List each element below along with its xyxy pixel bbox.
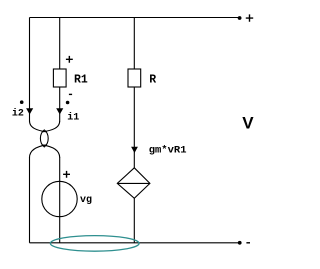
svg-text:R: R [149,73,156,86]
svg-text:i2: i2 [12,108,24,120]
svg-text:vg: vg [80,195,92,206]
svg-text:V: V [242,113,254,132]
svg-text:gm*vR1: gm*vR1 [149,145,187,157]
svg-text:i1: i1 [67,111,79,123]
svg-text:R1: R1 [74,73,88,86]
